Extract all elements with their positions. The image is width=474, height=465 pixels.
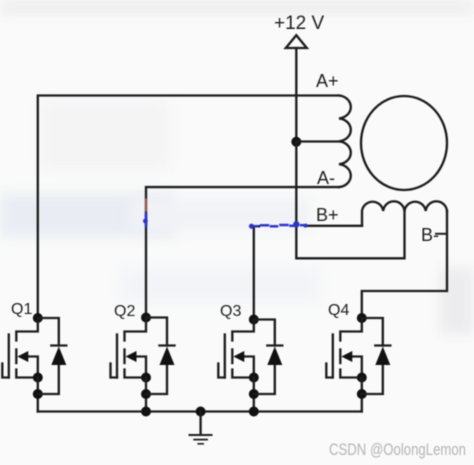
winding A (vertical, 4 loops) xyxy=(339,96,351,188)
svg-text:+12 V: +12 V xyxy=(274,13,325,34)
body diode of Q3 xyxy=(254,320,282,395)
svg-text:A-: A- xyxy=(317,168,335,188)
node: Q2 source on rail xyxy=(141,407,151,417)
winding B (horizontal, 4 loops) xyxy=(362,201,447,225)
blue annotation: tick on Q2 wire xyxy=(145,200,147,211)
wire: +12V vertical from supply to winding A center tap xyxy=(295,48,297,142)
wire B- (winding B right end down and left to Q4 drain) xyxy=(362,211,447,318)
svg-text:Q1: Q1 xyxy=(11,301,32,318)
transistor Q4 (N-MOSFET) xyxy=(326,313,367,412)
label B- xyxy=(435,233,446,235)
node: winding A center tap junction xyxy=(291,137,301,147)
wire B+ (Q3 drain up and right to winding B left end) xyxy=(254,226,259,320)
+12V supply symbol xyxy=(286,35,307,48)
blue annotation: traced-over B+ wire segment xyxy=(251,225,306,226)
body diode of Q1 xyxy=(38,318,67,394)
wire A+ (Q1 drain up to winding A top) xyxy=(38,96,339,319)
node: ground tap on rail xyxy=(196,407,206,417)
svg-text:Q2: Q2 xyxy=(114,303,135,320)
body diode of Q4 xyxy=(362,318,391,394)
svg-text:B+: B+ xyxy=(316,205,339,225)
motor body (circle) xyxy=(361,96,447,190)
transistor Q1 (N-MOSFET) xyxy=(2,313,43,412)
node: Q3 source on rail xyxy=(249,407,259,417)
svg-text:B-: B- xyxy=(421,225,439,245)
svg-text:Q4: Q4 xyxy=(328,302,349,319)
wire A- (winding A bottom to Q2 drain) xyxy=(146,187,339,317)
svg-text:Q3: Q3 xyxy=(220,303,241,320)
ground rail (common source bus) xyxy=(38,410,362,412)
blue annotation: junction dot on +12V crossing xyxy=(293,221,299,227)
blue annotation: dot at left end of traced segment xyxy=(249,224,254,229)
wire: winding A center tap xyxy=(296,140,339,142)
body diode of Q2 xyxy=(146,318,175,395)
svg-text:CSDN @OolongLemon: CSDN @OolongLemon xyxy=(329,441,466,459)
ground symbol xyxy=(190,412,212,444)
transistor Q3 (N-MOSFET) xyxy=(218,315,258,412)
wire: +12V continues down to winding B center tap xyxy=(296,142,404,259)
transistor Q2 (N-MOSFET) xyxy=(111,313,152,412)
svg-text:A+: A+ xyxy=(316,71,339,91)
